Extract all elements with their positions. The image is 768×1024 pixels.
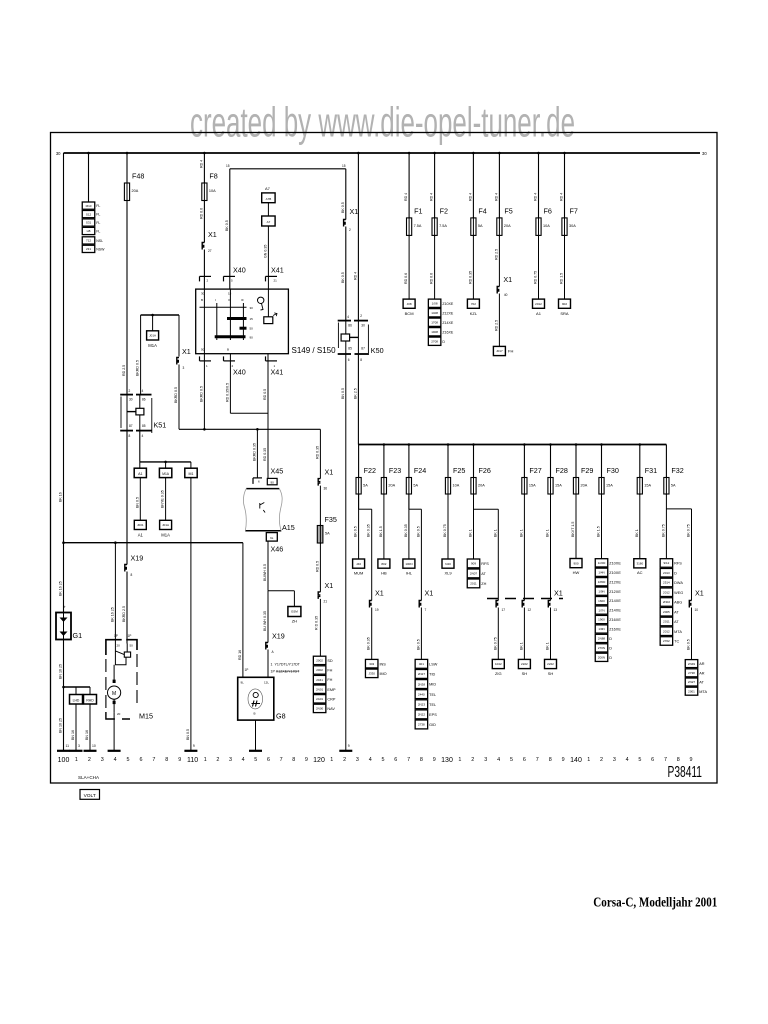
svg-text:10A: 10A xyxy=(209,189,216,193)
svg-text:RD 0.6: RD 0.6 xyxy=(430,273,434,284)
svg-text:NSL: NSL xyxy=(96,239,103,243)
ground LHD 3 xyxy=(75,750,77,752)
fuse F32 xyxy=(664,478,669,495)
svg-text:2: 2 xyxy=(349,228,351,232)
svg-text:2N22: 2N22 xyxy=(418,713,426,717)
svg-text:2: 2 xyxy=(129,389,131,393)
svg-text:BNYE 0.35: BNYE 0.35 xyxy=(161,490,165,508)
svg-text:2N27: 2N27 xyxy=(688,680,696,684)
svg-text:7: 7 xyxy=(280,757,283,763)
svg-text:27: 27 xyxy=(208,249,212,253)
svg-text:D: D xyxy=(442,340,445,344)
svg-text:BK 0.35: BK 0.35 xyxy=(367,524,371,537)
svg-text:2: 2 xyxy=(600,757,603,763)
wire FL feeder xyxy=(88,153,90,202)
wire F25 down xyxy=(447,494,449,559)
svg-text:Z12XE: Z12XE xyxy=(609,590,621,594)
svg-text:RD 2.5: RD 2.5 xyxy=(494,249,498,260)
svg-text:2N38: 2N38 xyxy=(418,682,426,686)
svg-text:8: 8 xyxy=(165,757,168,763)
terminal stack SD FH FH EMP CRP NAV xyxy=(313,656,326,664)
wire G8 ground xyxy=(255,720,257,751)
svg-text:30: 30 xyxy=(56,151,61,156)
svg-text:20A: 20A xyxy=(388,484,395,488)
svg-text:RD 4: RD 4 xyxy=(404,193,408,201)
corner y429 right to F35 xyxy=(319,429,321,478)
wire M15 ground xyxy=(113,712,115,750)
fuse F7 xyxy=(562,218,567,236)
wire K51-87 down xyxy=(126,431,128,565)
fuse F1 xyxy=(407,218,412,236)
svg-text:2002: 2002 xyxy=(316,668,323,672)
relay K51 xyxy=(120,394,133,396)
svg-text:87: 87 xyxy=(129,424,133,428)
svg-text:RD 4: RD 4 xyxy=(494,193,498,201)
wire X41-1 down xyxy=(267,354,269,479)
fuse F4 xyxy=(471,218,476,236)
wire F25 drop xyxy=(447,445,449,478)
svg-text:2: 2 xyxy=(88,757,91,763)
wire F24 left xyxy=(408,494,410,559)
svg-text:CRP: CRP xyxy=(327,697,335,701)
svg-text:J08: J08 xyxy=(407,302,412,306)
svg-text:X41: X41 xyxy=(271,266,284,275)
svg-text:AC: AC xyxy=(637,570,643,575)
svg-text:H8: H8 xyxy=(87,229,91,233)
svg-text:MUM: MUM xyxy=(354,571,364,576)
svg-text:2738: 2738 xyxy=(688,671,695,675)
svg-text:1/7N: 1/7N xyxy=(598,608,604,612)
svg-text:2011: 2011 xyxy=(663,620,670,624)
svg-text:3: 3 xyxy=(356,757,359,763)
wire F8 drop xyxy=(203,153,205,183)
terminal F23 HB xyxy=(378,559,390,568)
svg-text:9: 9 xyxy=(348,744,350,748)
svg-text:15A: 15A xyxy=(644,484,651,488)
wire F22 right branch xyxy=(358,494,360,509)
svg-text:X1: X1 xyxy=(375,589,384,598)
svg-text:5: 5 xyxy=(127,757,130,763)
ground RHD 10 xyxy=(89,750,91,752)
svg-text:MTA: MTA xyxy=(674,630,682,634)
svg-text:Z10XE: Z10XE xyxy=(609,561,621,565)
svg-text:BN 16 25: BN 16 25 xyxy=(59,664,63,679)
svg-text:3: 3 xyxy=(613,757,616,763)
svg-text:EMP: EMP xyxy=(327,688,336,692)
svg-text:RFS: RFS xyxy=(481,562,489,566)
svg-text:1P: 1P xyxy=(245,668,249,672)
svg-text:BK 0.5: BK 0.5 xyxy=(341,272,345,283)
svg-text:7: 7 xyxy=(664,757,667,763)
svg-text:B: B xyxy=(227,348,229,352)
terminal stack F30 engine codes xyxy=(595,559,608,567)
fuse F26 xyxy=(471,478,476,495)
svg-text:1/800: 1/800 xyxy=(598,580,606,584)
svg-text:802: 802 xyxy=(381,562,386,566)
svg-text:Z14XE: Z14XE xyxy=(609,609,621,613)
svg-text:NAV: NAV xyxy=(327,707,335,711)
wire A7 link xyxy=(267,203,269,216)
terminal stack F32 xyxy=(660,559,673,568)
svg-text:BK 2.5: BK 2.5 xyxy=(353,388,357,399)
svg-text:5A: 5A xyxy=(478,224,483,228)
svg-text:TC: TC xyxy=(674,640,679,644)
svg-text:20: 20 xyxy=(117,644,121,648)
svg-text:7.5A: 7.5A xyxy=(439,224,447,228)
svg-text:BN 16: BN 16 xyxy=(85,730,89,740)
svg-text:F35: F35 xyxy=(325,515,337,524)
svg-text:F28: F28 xyxy=(556,466,568,475)
svg-text:F31: F31 xyxy=(645,466,657,475)
terminal stack AR AT MTA xyxy=(685,660,698,668)
wire LHD drop xyxy=(75,687,77,695)
svg-text:BN 0.5: BN 0.5 xyxy=(341,388,345,399)
wire F6 drop xyxy=(538,153,540,218)
svg-text:2A01: 2A01 xyxy=(316,697,323,701)
svg-text:1/08: 1/08 xyxy=(432,301,438,305)
svg-text:HW: HW xyxy=(573,570,580,575)
svg-text:30: 30 xyxy=(129,398,133,402)
svg-text:RD 0.35/0.5: RD 0.35/0.5 xyxy=(225,383,229,402)
wire X1 to X40 xyxy=(203,250,205,290)
svg-text:9: 9 xyxy=(178,757,181,763)
svg-text:BN 0.5: BN 0.5 xyxy=(186,729,190,740)
svg-text:P38411: P38411 xyxy=(668,764,703,781)
svg-text:K51: K51 xyxy=(154,421,167,430)
svg-text:IMO: IMO xyxy=(379,672,386,676)
svg-text:BN 0.5: BN 0.5 xyxy=(135,497,139,508)
svg-text:15A: 15A xyxy=(529,484,536,488)
terminal F29 HW xyxy=(570,559,582,568)
svg-text:3: 3 xyxy=(101,757,104,763)
svg-text:36: 36 xyxy=(324,487,328,491)
wire bus y429 xyxy=(179,428,320,430)
svg-text:30A: 30A xyxy=(569,224,576,228)
wire F5 down xyxy=(498,235,500,286)
svg-text:8: 8 xyxy=(360,358,362,362)
svg-text:A7: A7 xyxy=(267,220,271,224)
wire distribution y315 xyxy=(141,314,179,316)
svg-text:INS: INS xyxy=(379,662,386,666)
svg-text:F4: F4 xyxy=(478,206,486,215)
relay K50 xyxy=(338,320,351,322)
svg-text:BK 0.5: BK 0.5 xyxy=(416,526,420,537)
wire 15 right drop to K50 xyxy=(345,169,347,220)
svg-text:F8: F8 xyxy=(209,172,217,181)
svg-text:1708: 1708 xyxy=(431,320,438,324)
svg-text:100N: 100N xyxy=(405,562,412,566)
terminal F24 IHL xyxy=(403,559,415,568)
svg-text:BK 0.75: BK 0.75 xyxy=(493,637,497,650)
svg-text:X1: X1 xyxy=(350,207,359,216)
svg-text:15: 15 xyxy=(342,164,346,168)
svg-text:F25: F25 xyxy=(453,466,465,475)
svg-text:2012: 2012 xyxy=(535,302,542,306)
svg-text:140: 140 xyxy=(570,757,582,764)
wire F27 down xyxy=(523,494,525,601)
ground K50 pin2 xyxy=(345,750,347,752)
svg-text:BKRD 2.5: BKRD 2.5 xyxy=(122,606,126,622)
fuse F8 xyxy=(202,183,207,201)
svg-text:6: 6 xyxy=(523,757,526,763)
svg-text:RD 4: RD 4 xyxy=(534,193,538,201)
svg-text:5: 5 xyxy=(254,757,257,763)
wire F22 left xyxy=(358,494,360,559)
wire F5 drop xyxy=(498,153,500,218)
svg-text:D: D xyxy=(609,646,612,650)
wire X40-2 down xyxy=(229,354,231,414)
svg-text:RD 4: RD 4 xyxy=(199,160,203,168)
fuse F5 xyxy=(497,218,502,236)
svg-text:712: 712 xyxy=(86,239,91,243)
wire K51-85 down xyxy=(139,431,141,462)
wire F24 right branch xyxy=(408,494,410,509)
wire F31 down xyxy=(639,494,641,559)
svg-text:J001: J001 xyxy=(137,523,144,527)
box VOLT xyxy=(80,790,100,800)
svg-text:A1: A1 xyxy=(138,472,142,476)
svg-text:BK 0.5: BK 0.5 xyxy=(416,639,420,650)
svg-text:7: 7 xyxy=(536,757,539,763)
svg-text:2002: 2002 xyxy=(316,659,323,663)
svg-text:BK 16 25: BK 16 25 xyxy=(110,607,114,622)
svg-text:G1: G1 xyxy=(73,631,83,640)
svg-text:1900: 1900 xyxy=(598,618,605,622)
terminal F25 XL9 xyxy=(442,559,454,568)
svg-text:ZIG: ZIG xyxy=(495,671,502,676)
svg-text:III: III xyxy=(241,298,244,302)
svg-text:702: 702 xyxy=(471,302,476,306)
wire F4 down xyxy=(472,235,474,299)
svg-text:F30: F30 xyxy=(607,466,619,475)
svg-text:F24: F24 xyxy=(414,466,426,475)
svg-text:NSW: NSW xyxy=(96,247,105,251)
svg-text:BK 0.35: BK 0.35 xyxy=(367,637,371,650)
svg-text:3180: 3180 xyxy=(636,562,643,566)
svg-text:M1A: M1A xyxy=(148,343,157,348)
box LHD xyxy=(70,695,83,705)
svg-text:M1A: M1A xyxy=(162,472,170,476)
svg-text:6: 6 xyxy=(267,757,270,763)
wire F48 to K51 xyxy=(126,201,128,395)
svg-text:8: 8 xyxy=(131,573,133,577)
svg-text:4: 4 xyxy=(142,389,144,393)
wire 15 left drop to X40 xyxy=(229,169,231,289)
wire X40-1 down xyxy=(203,354,205,430)
wire M1A down xyxy=(165,478,167,521)
svg-text:FH: FH xyxy=(508,349,513,354)
svg-text:1/9N: 1/9N xyxy=(598,627,604,631)
svg-text:20A: 20A xyxy=(478,484,485,488)
box tab A1 xyxy=(134,468,146,477)
svg-text:8: 8 xyxy=(292,757,295,763)
svg-text:BKRD 0.5: BKRD 0.5 xyxy=(174,387,178,403)
svg-text:AT: AT xyxy=(699,681,704,685)
svg-text:BK 16: BK 16 xyxy=(59,492,63,502)
svg-text:9: 9 xyxy=(193,744,195,748)
wire F32 left xyxy=(665,494,667,559)
svg-text:A15: A15 xyxy=(282,523,295,532)
node junction y542 xyxy=(62,541,65,544)
svg-text:FL: FL xyxy=(96,204,100,208)
svg-text:13: 13 xyxy=(554,608,558,612)
svg-text:LSW: LSW xyxy=(429,662,438,666)
terminal F6 A1 xyxy=(533,299,545,308)
wire F30 down xyxy=(601,494,603,559)
svg-text:X1: X1 xyxy=(554,589,563,598)
component A15 xyxy=(246,488,279,490)
svg-text:50: 50 xyxy=(130,644,134,648)
svg-text:EPS: EPS xyxy=(429,713,437,717)
svg-text:11: 11 xyxy=(66,744,70,748)
svg-text:BK 0.75: BK 0.75 xyxy=(687,524,691,537)
svg-text:7: 7 xyxy=(425,608,427,612)
svg-text:90: 90 xyxy=(271,480,275,484)
svg-text:X1: X1 xyxy=(325,468,334,477)
svg-text:200N: 200N xyxy=(598,656,605,660)
svg-text:RD 4: RD 4 xyxy=(430,193,434,201)
svg-text:2738: 2738 xyxy=(418,723,425,727)
wire y429 to X45-6 xyxy=(256,429,258,477)
svg-text:X40: X40 xyxy=(233,368,246,377)
terminal stack INS IMO xyxy=(365,659,378,668)
svg-text:BK 1.5: BK 1.5 xyxy=(379,526,383,537)
svg-text:BCM: BCM xyxy=(405,311,414,316)
svg-text:5: 5 xyxy=(382,757,385,763)
svg-text:2222: 2222 xyxy=(547,662,554,666)
svg-text:F7: F7 xyxy=(570,206,578,215)
svg-text:M15: M15 xyxy=(139,712,153,721)
svg-text:85: 85 xyxy=(348,347,352,351)
svg-text:F32: F32 xyxy=(671,466,683,475)
svg-text:BK 1: BK 1 xyxy=(519,529,523,537)
switch S149/S150 box xyxy=(196,289,289,354)
svg-text:FH: FH xyxy=(327,669,332,673)
svg-text:10A: 10A xyxy=(543,224,550,228)
svg-text:17: 17 xyxy=(502,608,506,612)
svg-text:SLA+CHA: SLA+CHA xyxy=(78,775,100,780)
fuse F48 xyxy=(124,183,129,201)
box tab M1 xyxy=(185,468,197,477)
svg-text:1: 1 xyxy=(458,757,461,763)
svg-text:AR: AR xyxy=(699,671,705,675)
svg-text:2001: 2001 xyxy=(688,689,695,693)
svg-text:AT: AT xyxy=(674,610,679,614)
svg-text:M10: M10 xyxy=(86,204,92,208)
svg-text:8: 8 xyxy=(677,757,680,763)
svg-text:A7B: A7B xyxy=(266,197,272,201)
svg-text:X19: X19 xyxy=(272,632,285,641)
wire F24 drop xyxy=(408,445,410,478)
svg-text:RD 0.5: RD 0.5 xyxy=(315,561,319,572)
svg-text:SD: SD xyxy=(327,659,333,663)
wire F22 drop xyxy=(358,445,360,478)
svg-text:15: 15 xyxy=(228,292,232,296)
svg-text:2N02: 2N02 xyxy=(663,600,671,604)
svg-text:15: 15 xyxy=(226,164,230,168)
svg-text:BK 0.35: BK 0.35 xyxy=(404,524,408,537)
svg-text:MTA: MTA xyxy=(699,690,707,694)
wire A1 down xyxy=(139,478,141,521)
svg-text:15A: 15A xyxy=(555,484,562,488)
svg-text:21: 21 xyxy=(324,600,328,604)
wire F2 drop xyxy=(434,153,436,218)
svg-text:270N: 270N xyxy=(598,646,605,650)
svg-text:X1: X1 xyxy=(182,347,191,356)
svg-text:J017: J017 xyxy=(496,349,503,353)
svg-text:+: + xyxy=(63,605,66,610)
svg-text:BK 1.5: BK 1.5 xyxy=(597,526,601,537)
svg-text:AT: AT xyxy=(481,572,486,576)
svg-text:TID: TID xyxy=(429,673,435,677)
svg-text:HB: HB xyxy=(381,571,387,576)
svg-text:AR: AR xyxy=(699,662,705,666)
svg-text:BK 16 25: BK 16 25 xyxy=(59,581,63,596)
svg-text:900: 900 xyxy=(573,561,578,565)
svg-text:1/4N: 1/4N xyxy=(598,570,604,574)
svg-text:RD 16: RD 16 xyxy=(238,650,242,660)
connector X46 xyxy=(266,533,277,542)
svg-text:SH: SH xyxy=(522,671,528,676)
svg-text:BK 1: BK 1 xyxy=(469,529,473,537)
svg-text:FL: FL xyxy=(96,213,100,217)
wire M15 pin20 stub xyxy=(114,541,117,544)
svg-text:2N01: 2N01 xyxy=(316,687,324,691)
fuse F22 xyxy=(356,478,361,495)
svg-text:BK 0.5: BK 0.5 xyxy=(225,220,229,231)
terminal F7 SRA xyxy=(559,299,571,308)
svg-text:X41: X41 xyxy=(271,368,284,377)
fuse F2 xyxy=(432,218,437,236)
wire F26 left xyxy=(473,494,475,559)
svg-text:4: 4 xyxy=(142,434,144,438)
wire F23 drop xyxy=(383,445,385,478)
svg-text:BK 1: BK 1 xyxy=(546,529,550,537)
wire F29 down xyxy=(575,494,577,559)
svg-text:BKRD 0.5: BKRD 0.5 xyxy=(199,386,203,402)
svg-text:BU WH 0.35: BU WH 0.35 xyxy=(263,611,267,631)
svg-text:X1: X1 xyxy=(208,230,217,239)
svg-text:2005: 2005 xyxy=(663,610,670,614)
svg-text:9: 9 xyxy=(690,757,693,763)
svg-text:87: 87 xyxy=(361,347,365,351)
svg-text:1408: 1408 xyxy=(431,311,438,315)
svg-text:2N27: 2N27 xyxy=(418,672,426,676)
terminal F5 FH xyxy=(493,346,505,355)
svg-text:1 Y17DTL/Y17DT: 1 Y17DTL/Y17DT xyxy=(271,663,301,667)
fuse F31 xyxy=(637,478,642,495)
svg-text:100: 100 xyxy=(58,757,70,764)
svg-text:2: 2 xyxy=(216,757,219,763)
svg-text:343: 343 xyxy=(369,662,374,666)
svg-text:BK 1: BK 1 xyxy=(546,642,550,650)
svg-text:1600: 1600 xyxy=(598,599,605,603)
svg-text:VOLT: VOLT xyxy=(84,793,96,799)
svg-text:X45: X45 xyxy=(271,467,284,476)
svg-text:20: 20 xyxy=(117,712,121,716)
terminal F27 SH xyxy=(518,659,530,668)
svg-text:BK 0.5: BK 0.5 xyxy=(354,526,358,537)
svg-text:LHD: LHD xyxy=(73,699,80,703)
wire F7 drop xyxy=(564,153,566,218)
wire F27 drop xyxy=(523,445,525,478)
wire F35 down xyxy=(319,543,321,592)
svg-text:TEL: TEL xyxy=(429,703,436,707)
svg-text:2: 2 xyxy=(360,314,362,318)
svg-text:RFS: RFS xyxy=(674,562,682,566)
wire F32 right branch xyxy=(666,508,691,510)
svg-text:A1: A1 xyxy=(138,533,144,538)
